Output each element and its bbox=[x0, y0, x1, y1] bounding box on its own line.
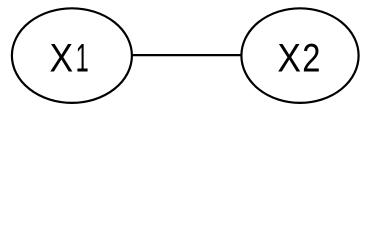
node X2 ellipse bbox=[241, 8, 358, 103]
svg-text:X: X bbox=[50, 37, 74, 81]
node X2 label bbox=[277, 35, 320, 81]
wire X1 to X2 bbox=[131, 54, 242, 56]
node X1 label bbox=[50, 35, 89, 81]
svg-text:X: X bbox=[277, 37, 301, 81]
svg-text:2: 2 bbox=[302, 35, 320, 80]
node X1 ellipse bbox=[12, 8, 132, 103]
svg-text:1: 1 bbox=[76, 35, 89, 80]
